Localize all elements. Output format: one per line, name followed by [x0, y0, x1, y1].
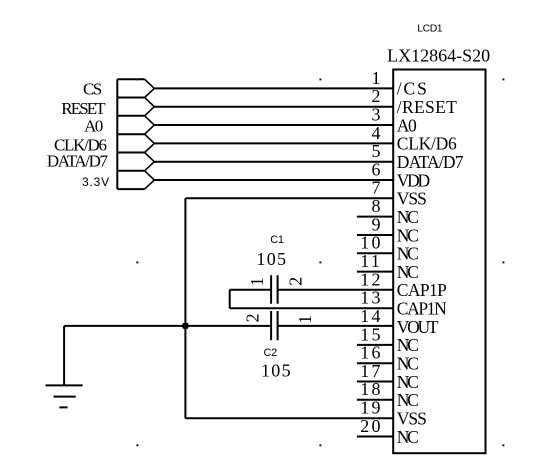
svg-text:VSS: VSS [397, 189, 426, 209]
svg-text:105: 105 [261, 360, 292, 380]
svg-text:10: 10 [360, 233, 382, 253]
svg-text:A0: A0 [84, 117, 103, 136]
svg-text:NC: NC [397, 427, 418, 447]
svg-text:VSS: VSS [397, 409, 426, 429]
svg-text:15: 15 [360, 324, 382, 344]
svg-text:4: 4 [372, 123, 381, 143]
svg-text:19: 19 [360, 398, 382, 418]
svg-text:NC: NC [397, 262, 418, 282]
svg-text:11: 11 [360, 251, 382, 271]
svg-text:1: 1 [295, 315, 315, 324]
svg-text:18: 18 [360, 379, 382, 399]
svg-text:12: 12 [360, 269, 382, 289]
svg-text:A0: A0 [397, 115, 417, 135]
svg-text:RESET: RESET [61, 99, 106, 118]
svg-text:CLK/D6: CLK/D6 [397, 134, 457, 154]
svg-text:2: 2 [286, 277, 306, 286]
svg-text:3.3V: 3.3V [82, 175, 110, 189]
svg-text:C1: C1 [270, 234, 284, 246]
svg-text:NC: NC [397, 244, 418, 264]
svg-text:105: 105 [256, 249, 287, 269]
svg-text:3: 3 [372, 104, 381, 124]
svg-text:LX12864-S20: LX12864-S20 [387, 46, 490, 66]
svg-text:17: 17 [360, 361, 382, 381]
svg-text:VOUT: VOUT [397, 317, 439, 337]
svg-text:2: 2 [243, 313, 263, 322]
svg-text:9: 9 [372, 214, 381, 234]
svg-text:1: 1 [372, 68, 381, 88]
svg-text:CS: CS [83, 80, 102, 99]
svg-text:7: 7 [372, 178, 381, 198]
svg-text:NC: NC [397, 335, 418, 355]
svg-text:/RESET: /RESET [397, 97, 457, 117]
svg-text:DATA/D7: DATA/D7 [47, 152, 109, 171]
svg-text:20: 20 [360, 416, 382, 436]
svg-text:2: 2 [372, 86, 381, 106]
svg-text:NC: NC [397, 225, 418, 245]
svg-text:/CS: /CS [397, 79, 429, 99]
svg-text:NC: NC [397, 390, 418, 410]
svg-text:CAP1P: CAP1P [397, 280, 447, 300]
svg-text:6: 6 [372, 159, 381, 179]
svg-text:DATA/D7: DATA/D7 [397, 152, 464, 172]
svg-text:1: 1 [247, 277, 267, 286]
svg-text:NC: NC [397, 207, 418, 227]
svg-text:NC: NC [397, 372, 418, 392]
svg-text:C2: C2 [264, 347, 278, 359]
svg-text:LCD1: LCD1 [417, 23, 443, 35]
svg-text:VDD: VDD [397, 170, 430, 190]
svg-text:5: 5 [372, 141, 381, 161]
svg-text:16: 16 [360, 343, 382, 363]
svg-text:13: 13 [360, 288, 382, 308]
svg-text:14: 14 [360, 306, 382, 326]
svg-text:CAP1N: CAP1N [397, 299, 447, 319]
svg-text:NC: NC [397, 354, 418, 374]
svg-text:8: 8 [372, 196, 381, 216]
